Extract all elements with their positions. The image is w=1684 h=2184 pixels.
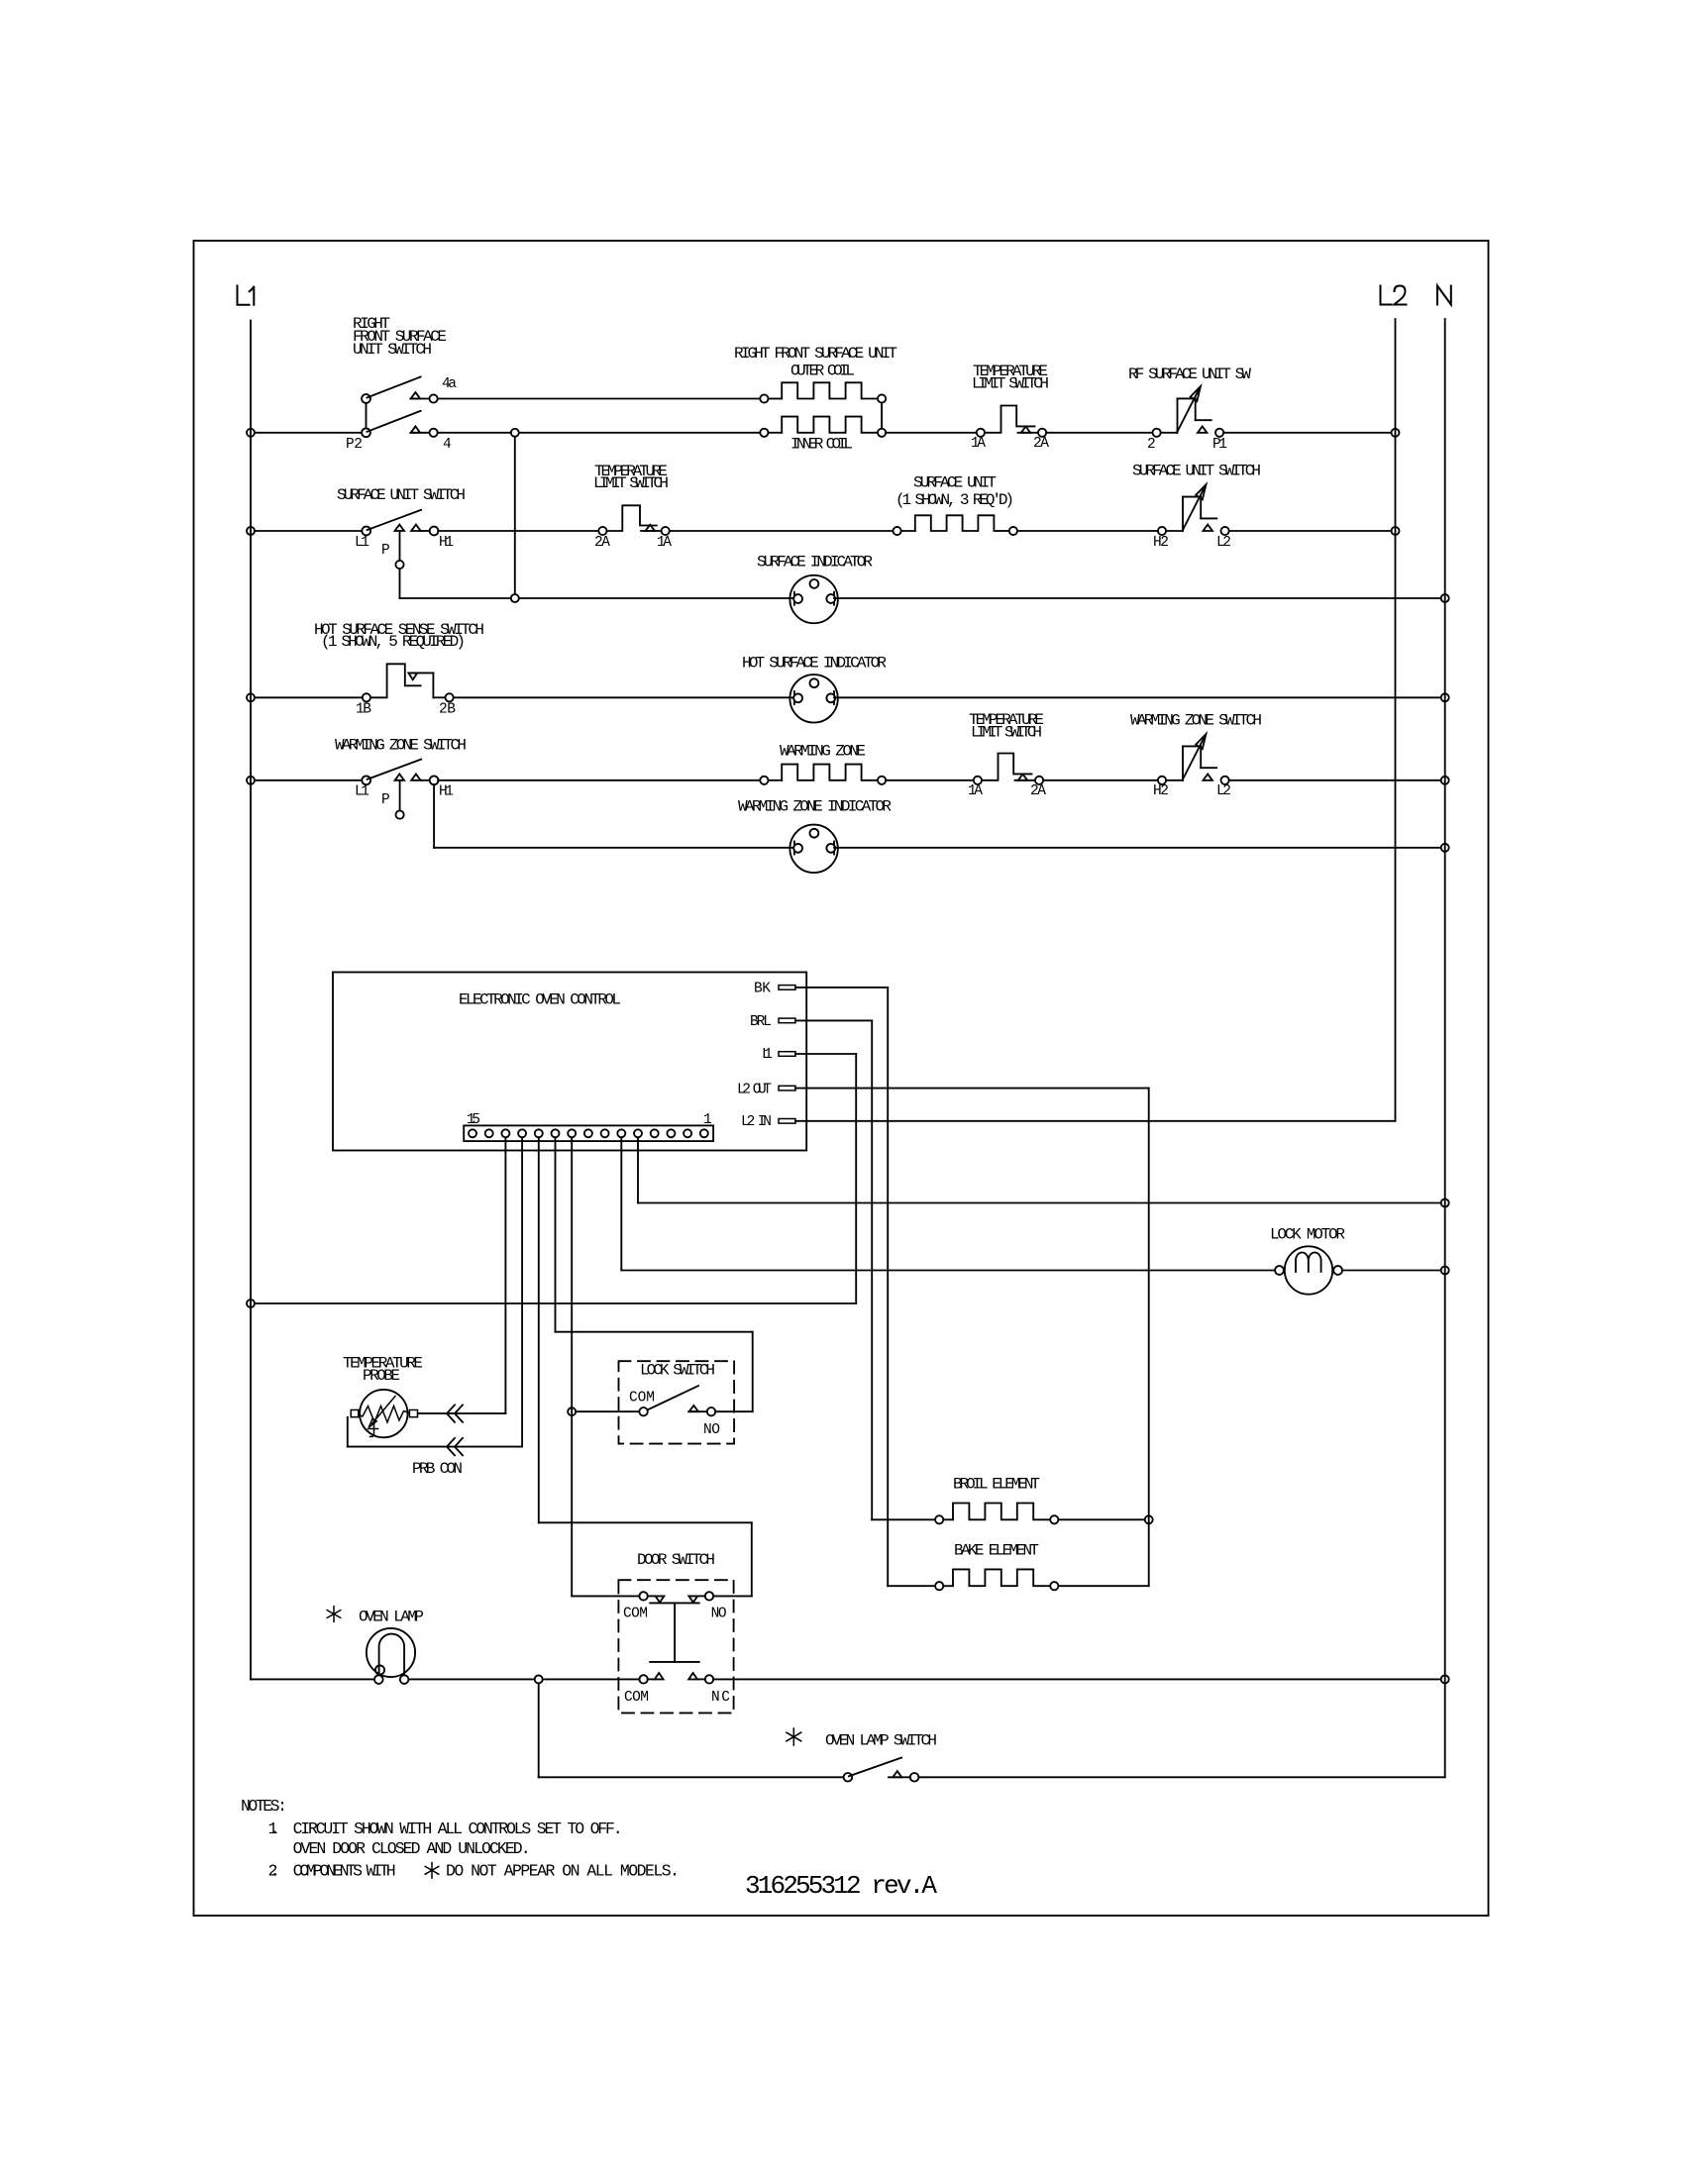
terminal BK [754, 982, 771, 997]
svg-text:WARMING ZONE: WARMING ZONE [780, 743, 866, 761]
terminal L1 of EOC [762, 1047, 773, 1063]
junction warming-indicator/N [1441, 844, 1449, 852]
wire indicator row left [519, 597, 794, 599]
svg-text:4: 4 [443, 437, 452, 453]
svg-text:(1 SHOWN, 5 REQUIRED): (1 SHOWN, 5 REQUIRED) [321, 633, 466, 651]
svg-text:L2: L2 [1216, 535, 1231, 551]
wire L1 bus [250, 321, 252, 1680]
pin 12 [518, 1129, 526, 1137]
door switch actuator bar [650, 1602, 699, 1604]
svg-text:L2 IN: L2 IN [741, 1114, 772, 1130]
junction pin9-wire/lock-COM [568, 1407, 576, 1415]
wire row4 to hot surface indicator [454, 696, 794, 698]
svg-text:BRL: BRL [750, 1014, 772, 1030]
terminal door COM lower [624, 1690, 649, 1706]
svg-text:LIMIT SWITCH: LIMIT SWITCH [972, 375, 1049, 393]
svg-text:WARMING ZONE SWITCH: WARMING ZONE SWITCH [335, 737, 467, 755]
svg-text:L2 OUT: L2 OUT [737, 1083, 772, 1098]
junction broil/L2OUT [1145, 1515, 1153, 1523]
switch warming-zone left L1-P-H1 [335, 737, 467, 809]
wire outer-inner coil tie [881, 403, 883, 429]
junction L1/row3 [247, 527, 255, 535]
wire row2 to junction 520 [438, 432, 511, 434]
pin 9 [568, 1129, 576, 1137]
junction row4/N [1441, 693, 1449, 701]
wire lock NO lead [715, 1410, 753, 1412]
notes text [241, 1797, 680, 1881]
wire pin5 to N [637, 1137, 639, 1202]
wire pin10 to lock switch NO [555, 1137, 557, 1331]
wire pin9 to lock/door COM [571, 1137, 573, 1596]
wire EOC L1 to L1 bus [795, 1053, 856, 1055]
svg-text:P: P [381, 792, 390, 808]
svg-text:2A: 2A [1033, 436, 1049, 452]
terminal BRL [750, 1014, 772, 1030]
wire P drop to indicator row [399, 569, 401, 598]
svg-text:2A: 2A [1030, 783, 1046, 799]
border frame [194, 241, 1489, 1916]
resistor inner coil [760, 429, 768, 437]
pin 6 [617, 1129, 625, 1137]
svg-text:H1: H1 [439, 535, 454, 551]
svg-text:1A: 1A [971, 436, 986, 452]
pin 2 [684, 1129, 691, 1137]
wire door NC to N [713, 1678, 1440, 1680]
svg-text:UNIT SWITCH: UNIT SWITCH [353, 341, 432, 359]
svg-text:OUTER COIL: OUTER COIL [790, 363, 855, 380]
junction row2/L2 [1392, 429, 1400, 437]
pin 11 [535, 1129, 543, 1137]
svg-text:1A: 1A [657, 535, 672, 551]
svg-text:L1: L1 [355, 535, 369, 551]
svg-text:LOCK MOTOR: LOCK MOTOR [1270, 1226, 1345, 1244]
pin 13 [501, 1129, 509, 1137]
svg-text:L1: L1 [355, 784, 369, 800]
wire lock COM lead [576, 1410, 639, 1412]
wire row2 to L2 [1223, 432, 1391, 434]
wire inner coil to limit switch [886, 432, 977, 434]
pin 4 [651, 1129, 659, 1137]
wire indicator row to N [834, 597, 1441, 599]
pin 5 [634, 1129, 642, 1137]
wire row3 to right switch [1017, 530, 1158, 532]
motor lock motor M1 [1270, 1226, 1345, 1244]
switch surface-unit left L1-P-H1 [337, 486, 466, 559]
wire broil to L2OUT drop [1058, 1518, 1144, 1520]
svg-text:OVEN LAMP SWITCH: OVEN LAMP SWITCH [825, 1732, 937, 1750]
wire bake to L2OUT drop [1058, 1585, 1148, 1587]
svg-text:RF SURFACE UNIT SW: RF SURFACE UNIT SW [1128, 365, 1251, 383]
switch hot-surface-sense 1B-2B [314, 621, 484, 718]
svg-text:NO: NO [711, 1607, 727, 1622]
terminal door COM upper [623, 1607, 648, 1622]
wire row2 to RF switch [1046, 432, 1152, 434]
svg-text:COM: COM [629, 1391, 655, 1406]
wire BK to bake element [795, 987, 888, 988]
svg-text:NOTES:: NOTES: [241, 1797, 287, 1816]
junction pin5-wire/N [1441, 1199, 1449, 1207]
svg-text:OVEN DOOR CLOSED AND UNLOCKED.: OVEN DOOR CLOSED AND UNLOCKED. [293, 1839, 531, 1858]
wire row2 to inner coil [519, 432, 760, 434]
svg-text:LIMIT SWITCH: LIMIT SWITCH [971, 724, 1042, 742]
switch RF surface unit SW [1128, 365, 1251, 453]
lamp oven lamp [333, 1607, 335, 1622]
svg-text:P2: P2 [346, 437, 363, 453]
wire pin6 to lock motor [620, 1137, 622, 1270]
svg-text:1.: 1. [268, 1820, 280, 1838]
svg-text:L2: L2 [1216, 783, 1231, 799]
wire door NO upper lead [713, 1595, 752, 1597]
svg-text:2: 2 [1147, 437, 1156, 453]
svg-text:SURFACE UNIT SWITCH: SURFACE UNIT SWITCH [1132, 463, 1261, 480]
lamp surface indicator [757, 554, 873, 572]
svg-text:DOOR SWITCH: DOOR SWITCH [637, 1551, 715, 1569]
wire row4 to N [834, 696, 1441, 698]
wire row5 to N [1229, 780, 1441, 781]
svg-text:P1: P1 [1212, 437, 1227, 453]
wire row3 from L1 [255, 530, 362, 532]
svg-text:H2: H2 [1153, 535, 1169, 551]
svg-text:INNER COIL: INNER COIL [790, 436, 853, 454]
wire row3 to limit switch [438, 530, 598, 532]
wire oven lamp row from L1 [251, 1678, 374, 1680]
wire drop row2 to indicator row [514, 437, 516, 594]
pin 8 [584, 1129, 592, 1137]
resistor temperature probe RT1 [343, 1355, 423, 1386]
svg-text:NO: NO [703, 1422, 720, 1438]
junction row3/L2 [1392, 527, 1400, 535]
pin 1 [700, 1129, 708, 1137]
wire warming indicator to N [834, 847, 1441, 849]
junction motor/N [1441, 1267, 1449, 1275]
connector chevrons probe bottom [447, 1438, 455, 1455]
pin 15 [469, 1129, 476, 1137]
terminal P pilot row3 [395, 561, 403, 569]
terminal strip 15-1 [467, 1112, 712, 1128]
switch right-front-surface-unit lower pole P2-4 [346, 437, 452, 453]
junction L1/row2 [247, 429, 255, 437]
wire pin12 to probe return [521, 1137, 523, 1446]
wire row1 to outer coil [438, 398, 761, 400]
wire junction to door COM lower [543, 1678, 640, 1680]
resistor surface unit [895, 474, 1014, 510]
junction pilot/row2-drop [511, 594, 519, 602]
switch warming-zone right H2-L2 [1130, 712, 1262, 800]
wire drop to oven lamp switch [538, 1683, 540, 1777]
svg-text:4a: 4a [442, 376, 457, 392]
svg-text:WARMING ZONE SWITCH: WARMING ZONE SWITCH [1130, 712, 1262, 730]
svg-text:L1: L1 [762, 1047, 773, 1063]
node N label [1437, 286, 1451, 305]
svg-text:SURFACE INDICATOR: SURFACE INDICATOR [757, 554, 873, 572]
contact door NC lower [711, 1690, 730, 1706]
wire row2 from L1 [255, 432, 362, 434]
node L1 label [238, 286, 255, 305]
svg-text:COM: COM [624, 1690, 649, 1706]
wire oven lamp to junction [408, 1678, 534, 1680]
switch temperature-limit row3 2A-1A [593, 463, 672, 551]
wire L2 IN to L2 bus [795, 1120, 1396, 1122]
svg-text:LOCK SWITCH: LOCK SWITCH [640, 1362, 715, 1380]
switch lock switch [640, 1362, 715, 1380]
wire row5 to warming coil [438, 780, 760, 781]
wire L2 bus [1395, 319, 1397, 1121]
wire row5 to warming switch [1043, 780, 1158, 781]
connector chevrons probe top [447, 1404, 455, 1421]
contact door NO upper [711, 1607, 727, 1622]
resistor broil element [953, 1476, 1040, 1494]
wire oven lamp switch to N [918, 1776, 1444, 1778]
wire row5 from L1 [255, 780, 362, 781]
svg-text:NC: NC [711, 1690, 730, 1706]
resistor bake element [954, 1542, 1039, 1560]
switch surface-unit right H2-L2 [1132, 463, 1261, 552]
label PRB CON [412, 1460, 463, 1478]
svg-text:BAKE ELEMENT: BAKE ELEMENT [954, 1542, 1039, 1560]
wire pin11 to door switch NO [538, 1137, 540, 1522]
wire row5 to limit switch [886, 780, 974, 781]
wire lock motor to N [1342, 1270, 1441, 1272]
junction lamp-row/switch-drop [535, 1675, 543, 1683]
svg-text:COMPONENTS WITH: COMPONENTS WITH [293, 1862, 396, 1881]
svg-text:2.: 2. [268, 1862, 280, 1881]
electronic oven control box U1 [333, 973, 806, 1151]
wire H1 drop to warming indicator row [433, 784, 435, 848]
svg-text:RIGHT FRONT SURFACE UNIT: RIGHT FRONT SURFACE UNIT [734, 345, 897, 363]
pin 7 [601, 1129, 609, 1137]
svg-text:BK: BK [754, 982, 771, 997]
svg-text:316255312 rev.A: 316255312 rev.A [745, 1871, 937, 1901]
pin 3 [667, 1129, 675, 1137]
svg-text:PROBE: PROBE [363, 1367, 400, 1385]
svg-text:CIRCUIT SHOWN WITH ALL CONTROL: CIRCUIT SHOWN WITH ALL CONTROLS SET TO O… [293, 1820, 623, 1838]
contact lock NO [703, 1422, 720, 1438]
svg-text:LIMIT SWITCH: LIMIT SWITCH [593, 474, 669, 492]
svg-text:H1: H1 [439, 784, 454, 800]
svg-text:(1 SHOWN, 3 REQ'D): (1 SHOWN, 3 REQ'D) [895, 491, 1014, 509]
lamp hot surface indicator [742, 655, 887, 673]
switch oven lamp switch [792, 1728, 794, 1745]
terminal L2 OUT [737, 1083, 772, 1098]
wire row4 from L1 [255, 696, 363, 698]
svg-text:SURFACE UNIT SWITCH: SURFACE UNIT SWITCH [337, 486, 466, 504]
svg-text:COM: COM [623, 1607, 648, 1622]
terminal P pilot row5 [396, 811, 404, 819]
resistor warming zone [780, 743, 866, 761]
wire row3 to surface unit coil [670, 530, 894, 532]
junction row2/pilot-drop [511, 429, 519, 437]
terminal L2 IN [741, 1114, 772, 1130]
node L2 label [1381, 286, 1407, 305]
switch right-front-surface-unit upper pole 4a [353, 315, 457, 392]
wire L2 OUT to elements [795, 1088, 1149, 1090]
svg-text:HOT SURFACE INDICATOR: HOT SURFACE INDICATOR [742, 655, 887, 673]
junction L1/row5 [247, 777, 255, 784]
lamp warming zone indicator [738, 798, 892, 816]
resistor outer coil [760, 394, 768, 402]
terminal lock COM [629, 1391, 655, 1406]
svg-text:DO NOT APPEAR ON ALL MODELS.: DO NOT APPEAR ON ALL MODELS. [446, 1862, 680, 1881]
wire pilot P drop row3 [399, 531, 401, 561]
part number 316255312 rev.A [745, 1871, 937, 1901]
svg-text:SURFACE UNIT: SURFACE UNIT [913, 474, 997, 492]
svg-text:BROIL ELEMENT: BROIL ELEMENT [953, 1476, 1040, 1494]
svg-text:WARMING ZONE INDICATOR: WARMING ZONE INDICATOR [738, 798, 892, 816]
label right front surface unit [734, 345, 897, 380]
svg-text:2A: 2A [594, 535, 610, 551]
wire BRL to broil element [795, 1019, 872, 1021]
pin 14 [485, 1129, 493, 1137]
switch temperature-limit row5 1A-2A [968, 711, 1046, 799]
junction L1/row4 [247, 693, 255, 701]
switch temperature-limit row2 1A-2A [971, 363, 1049, 452]
junction surface-indicator/N [1441, 594, 1449, 602]
junction lamp-row/N [1441, 1675, 1449, 1683]
svg-text:PRB CON: PRB CON [412, 1460, 463, 1478]
junction L1/EOC-L1-wire [247, 1300, 255, 1307]
svg-text:H2: H2 [1153, 783, 1169, 799]
svg-text:2B: 2B [439, 702, 456, 718]
svg-text:ELECTRONIC OVEN CONTROL: ELECTRONIC OVEN CONTROL [459, 991, 621, 1009]
wire pin13 to probe [504, 1137, 506, 1413]
wire pilot P drop row5 [399, 780, 401, 811]
switch door switch [637, 1551, 715, 1569]
svg-text:1B: 1B [356, 702, 371, 718]
svg-text:1A: 1A [968, 783, 983, 799]
wire row3 to L2 [1229, 530, 1392, 532]
junction row5/N [1441, 777, 1449, 784]
wire N bus [1444, 319, 1446, 1777]
pin 10 [552, 1129, 560, 1137]
svg-text:P: P [381, 543, 390, 559]
svg-text:OVEN LAMP: OVEN LAMP [359, 1609, 424, 1626]
